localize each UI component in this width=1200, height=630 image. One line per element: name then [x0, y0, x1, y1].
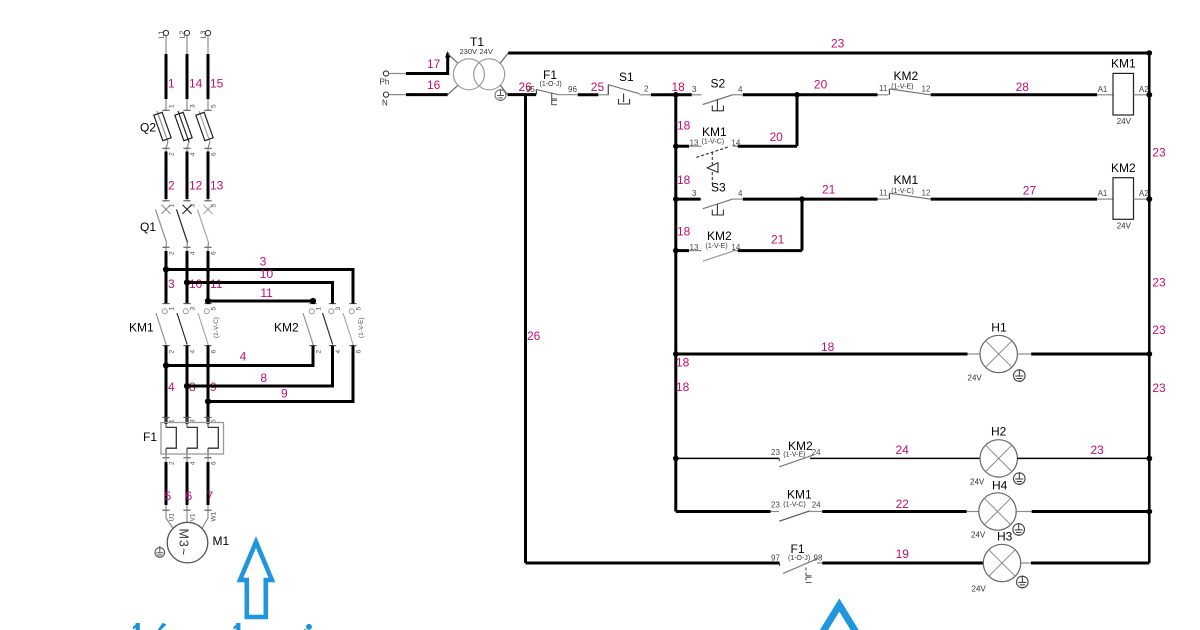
- svg-text:21: 21: [822, 183, 836, 197]
- wire 23 (H1 to rail): [1017, 351, 1152, 357]
- svg-text:H4: H4: [992, 478, 1008, 492]
- wire 21 (vertical link): [801, 199, 804, 251]
- wire motor lead V1: [186, 510, 188, 522]
- svg-text:A1: A1: [1098, 189, 1108, 198]
- contact KM1 11-12: [878, 193, 931, 199]
- svg-text:M1: M1: [213, 534, 230, 548]
- svg-text:97: 97: [771, 553, 780, 562]
- wire 18 (H1 row): [676, 353, 980, 356]
- svg-text:18: 18: [677, 119, 691, 133]
- svg-text:96: 96: [568, 85, 577, 94]
- wire 6: [183, 453, 196, 522]
- svg-text:25: 25: [591, 80, 605, 94]
- wire 18 (H4 row left): [676, 510, 771, 513]
- svg-text:18: 18: [676, 356, 690, 370]
- terminal L1: [159, 30, 169, 38]
- svg-text:V1: V1: [190, 513, 197, 521]
- wire 28: [931, 93, 1113, 96]
- wire 20 (rail1 right): [743, 92, 878, 98]
- svg-text:26: 26: [527, 329, 541, 343]
- svg-text:Ph: Ph: [380, 78, 390, 87]
- svg-text:24: 24: [812, 500, 821, 509]
- svg-text:18: 18: [821, 340, 835, 354]
- svg-text:2: 2: [168, 178, 175, 192]
- svg-text:24: 24: [812, 448, 821, 457]
- svg-text:6: 6: [211, 350, 218, 354]
- svg-text:KM1: KM1: [702, 125, 727, 139]
- svg-text:15: 15: [210, 76, 224, 90]
- wire 27: [931, 198, 1113, 201]
- wire 9 (return bus from KM2 pole3): [205, 346, 353, 405]
- svg-text:8: 8: [260, 371, 267, 385]
- wire 8 (vertical): [186, 346, 189, 424]
- contact F1 97-98: [780, 559, 823, 583]
- svg-text:27: 27: [1023, 184, 1037, 198]
- svg-text:KM2: KM2: [274, 321, 299, 335]
- svg-text:KM1: KM1: [894, 173, 919, 187]
- svg-text:A1: A1: [1098, 85, 1108, 94]
- svg-text:22: 22: [896, 497, 910, 511]
- svg-text:2: 2: [169, 152, 176, 156]
- ground symbol at T1 secondary: [495, 90, 506, 101]
- svg-text:12: 12: [189, 178, 203, 192]
- svg-text:A2: A2: [1139, 85, 1149, 94]
- svg-text:18: 18: [672, 80, 686, 94]
- svg-text:11: 11: [879, 84, 888, 93]
- svg-text:4: 4: [335, 350, 342, 354]
- svg-text:5: 5: [211, 104, 218, 108]
- wire 13: [204, 148, 217, 207]
- svg-text:4: 4: [738, 85, 743, 94]
- wire 24 (H2 row left): [676, 457, 780, 459]
- svg-text:KM2: KM2: [1111, 161, 1136, 175]
- contactor KM2 pole 1: [303, 304, 323, 354]
- svg-text:5: 5: [165, 489, 172, 503]
- pushbutton S2 (NO): [692, 95, 743, 111]
- wire 12: [183, 148, 196, 207]
- contactor KM1 pole 3: [198, 304, 218, 354]
- lamp H4: [979, 493, 1016, 530]
- svg-text:4: 4: [190, 251, 197, 255]
- breaker Q1 pole 3: [198, 205, 218, 255]
- svg-text:3: 3: [168, 277, 175, 291]
- svg-text:23: 23: [1091, 443, 1105, 457]
- terminal L3: [201, 30, 211, 38]
- svg-text:(1-V-C): (1-V-C): [702, 139, 725, 146]
- svg-text:24V: 24V: [971, 530, 986, 539]
- ground symbol (H3): [1017, 576, 1029, 588]
- svg-text:20: 20: [770, 130, 784, 144]
- wire 15 (phase L3 drop): [204, 36, 217, 111]
- lamp H2: [980, 440, 1017, 477]
- wire 22: [822, 510, 979, 513]
- svg-text:23: 23: [831, 37, 845, 51]
- svg-text:(1-V-C): (1-V-C): [213, 317, 220, 338]
- svg-text:23: 23: [771, 448, 780, 457]
- wire 14 (phase L2 drop): [183, 36, 196, 111]
- fuse-switch Q2 pole 2: [175, 111, 197, 156]
- wire motor lead U1: [166, 510, 174, 529]
- wire 4 (return bus from KM2 pole1): [163, 346, 313, 369]
- wire 21 (row3 right): [743, 196, 878, 202]
- wire 2: [162, 148, 175, 207]
- svg-text:24V: 24V: [972, 584, 987, 593]
- contact KM2 23-24: [779, 455, 814, 467]
- svg-text:4: 4: [168, 380, 175, 394]
- svg-text:18: 18: [676, 380, 690, 394]
- svg-text:12: 12: [922, 189, 931, 198]
- wire 24 (H2 to lamp): [810, 457, 980, 459]
- wire 18 (rail1): [651, 92, 692, 98]
- svg-text:(1-V-E): (1-V-E): [891, 84, 913, 91]
- wire 7: [204, 453, 217, 522]
- contact F1 95-96: [536, 89, 577, 105]
- svg-text:13: 13: [690, 243, 699, 252]
- motor M1: [167, 522, 208, 563]
- svg-text:2: 2: [169, 350, 176, 354]
- contact KM2 11-12: [878, 89, 931, 95]
- svg-text:3: 3: [692, 85, 697, 94]
- svg-text:2: 2: [169, 251, 176, 255]
- wire motor lead W1: [202, 510, 209, 529]
- svg-text:23: 23: [771, 500, 780, 509]
- svg-text:KM1: KM1: [1111, 57, 1136, 71]
- wire 5: [162, 453, 175, 522]
- svg-text:12: 12: [922, 84, 931, 93]
- fuse-switch Q2 pole 3: [196, 111, 218, 156]
- wire 23 (H3 to rail): [1021, 562, 1150, 564]
- svg-text:24V: 24V: [968, 374, 983, 383]
- contact KM1 13-14: [676, 146, 797, 184]
- svg-text:6: 6: [211, 251, 218, 255]
- wire 8 (return bus from KM2 pole2): [184, 346, 333, 390]
- svg-text:(1-V-C): (1-V-C): [891, 188, 914, 195]
- svg-text:18: 18: [677, 173, 691, 187]
- svg-text:5: 5: [211, 307, 218, 311]
- contact KM1 23-24: [771, 511, 823, 521]
- svg-text:W1: W1: [211, 511, 218, 521]
- svg-text:13: 13: [210, 178, 224, 192]
- svg-text:1: 1: [169, 104, 176, 108]
- blue caption: schema de puissance (clipped ascender tops): [133, 623, 312, 630]
- svg-text:S1: S1: [619, 70, 634, 84]
- svg-text:13: 13: [690, 139, 699, 148]
- svg-text:H1: H1: [991, 320, 1007, 334]
- svg-text:Q2: Q2: [140, 121, 156, 135]
- svg-text:H3: H3: [997, 530, 1013, 544]
- svg-text:4: 4: [190, 350, 197, 354]
- contactor KM2 pole 2: [323, 304, 343, 354]
- svg-text:2: 2: [644, 85, 649, 94]
- svg-text:95: 95: [526, 85, 535, 94]
- contactor KM1 pole 1: [156, 304, 176, 354]
- ground symbol at motor: [155, 546, 165, 557]
- thermal relay F1 heater pole 2: [183, 417, 197, 465]
- svg-text:19: 19: [896, 547, 910, 561]
- svg-text:23: 23: [1152, 323, 1166, 337]
- svg-text:KM2: KM2: [707, 229, 732, 243]
- svg-text:KM2: KM2: [894, 69, 919, 83]
- svg-text:3: 3: [692, 189, 697, 198]
- svg-text:2: 2: [316, 350, 323, 354]
- ground symbol (H1): [1014, 369, 1026, 381]
- svg-text:16: 16: [427, 78, 441, 92]
- svg-text:KM1: KM1: [129, 321, 154, 335]
- svg-text:2: 2: [169, 461, 176, 465]
- terminal N: [382, 92, 389, 108]
- svg-text:230V: 230V: [460, 47, 478, 56]
- svg-text:3: 3: [190, 307, 197, 311]
- svg-text:Q1: Q1: [140, 220, 156, 234]
- lamp H1: [980, 335, 1017, 372]
- wire 17: [389, 51, 451, 75]
- wire 26 (from T1 secondary): [508, 95, 780, 563]
- svg-text:14: 14: [731, 139, 740, 148]
- thermal relay F1 heater pole 1: [162, 417, 176, 465]
- breaker Q1 pole 1: [156, 205, 176, 255]
- svg-text:(1-O-J): (1-O-J): [788, 555, 810, 562]
- contactor KM2 pole 3: [343, 304, 363, 354]
- svg-text:14: 14: [189, 76, 203, 90]
- ground symbol (H2): [1014, 472, 1026, 484]
- wire 18 (left branch vertical): [673, 95, 679, 512]
- svg-text:6: 6: [211, 152, 218, 156]
- svg-text:24V: 24V: [1117, 221, 1132, 230]
- contact KM2 13-14: [676, 251, 802, 262]
- svg-text:6: 6: [186, 489, 193, 503]
- svg-text:4: 4: [190, 152, 197, 156]
- svg-text:3: 3: [190, 104, 197, 108]
- wire 4 (vertical): [165, 346, 168, 424]
- wire 11 (vertical): [207, 247, 209, 303]
- pushbutton S1 (NC): [608, 85, 651, 105]
- svg-text:KM1: KM1: [787, 487, 812, 501]
- wire 3 (bus to KM2 pole3): [163, 266, 353, 303]
- svg-text:18: 18: [677, 225, 691, 239]
- svg-text:1: 1: [316, 307, 323, 311]
- svg-text:(1-V-E): (1-V-E): [783, 452, 805, 459]
- svg-text:11: 11: [260, 286, 273, 300]
- svg-text:23: 23: [1152, 146, 1166, 160]
- wire 3 (vertical): [165, 247, 167, 303]
- wire 16: [389, 94, 448, 96]
- svg-text:23: 23: [1152, 276, 1166, 290]
- svg-text:24: 24: [896, 443, 910, 457]
- svg-text:6: 6: [211, 461, 218, 465]
- thermal relay F1 box: [161, 423, 224, 455]
- svg-text:21: 21: [771, 233, 785, 247]
- coil KM1: [1113, 73, 1152, 115]
- terminal L2: [180, 30, 190, 38]
- pushbutton S3 (NO): [676, 199, 743, 215]
- svg-text:(1-V-E): (1-V-E): [358, 317, 365, 338]
- svg-text:23: 23: [1152, 381, 1166, 395]
- wire 1 (phase L1 drop): [162, 36, 175, 111]
- svg-text:11: 11: [879, 188, 888, 197]
- wire 23 (right rail): [1148, 53, 1151, 563]
- wire 25: [578, 93, 609, 96]
- svg-text:24V: 24V: [970, 477, 985, 486]
- svg-text:10: 10: [260, 267, 274, 281]
- terminal Ph: [380, 71, 390, 87]
- svg-text:U1: U1: [169, 513, 176, 522]
- svg-text:28: 28: [1016, 80, 1030, 94]
- svg-text:5: 5: [356, 307, 363, 311]
- svg-text:(1-O-J): (1-O-J): [540, 81, 562, 88]
- svg-text:7: 7: [207, 489, 214, 503]
- svg-text:9: 9: [281, 387, 288, 401]
- breaker Q1 pole 2: [177, 205, 197, 255]
- wire 10 (bus to KM2 pole2): [184, 279, 333, 303]
- wire 23 (H4 to rail): [1016, 509, 1152, 515]
- wire 11 (bus to KM2 pole1): [205, 298, 316, 304]
- wire 23 (H2 to rail): [1017, 456, 1152, 462]
- svg-text:(1-V-E): (1-V-E): [706, 243, 728, 250]
- svg-text:24V: 24V: [1117, 117, 1132, 126]
- svg-text:4: 4: [240, 350, 247, 364]
- wire 10 (vertical): [186, 247, 188, 303]
- svg-text:14: 14: [731, 243, 740, 252]
- svg-text:S2: S2: [711, 77, 726, 91]
- svg-text:1: 1: [168, 76, 175, 90]
- svg-text:H2: H2: [991, 425, 1007, 439]
- svg-text:N: N: [382, 99, 388, 108]
- svg-text:(1-V-C): (1-V-C): [783, 502, 806, 509]
- thermal relay F1 heater pole 3: [204, 417, 218, 465]
- svg-text:20: 20: [814, 78, 828, 92]
- svg-text:17: 17: [427, 57, 441, 71]
- svg-text:S3: S3: [711, 181, 726, 195]
- svg-text:A2: A2: [1139, 189, 1149, 198]
- svg-text:98: 98: [814, 553, 823, 562]
- lamp H3: [983, 544, 1020, 581]
- wire 23 (top rail): [508, 50, 1152, 56]
- svg-text:4: 4: [190, 461, 197, 465]
- svg-text:1: 1: [169, 307, 176, 311]
- wire 19: [822, 562, 983, 565]
- blue arrow (points to power circuit): [240, 542, 272, 617]
- wire 9 (vertical): [207, 346, 210, 424]
- contactor KM1 pole 2: [177, 304, 197, 354]
- coil KM2: [1113, 178, 1152, 220]
- transformer T1: [448, 53, 509, 95]
- blue arrow (points to control circuit): [815, 605, 864, 630]
- svg-text:6: 6: [356, 350, 363, 354]
- fuse-switch Q2 pole 1: [154, 111, 176, 156]
- svg-text:F1: F1: [143, 430, 157, 444]
- svg-text:24V: 24V: [480, 47, 493, 56]
- svg-text:M3~: M3~: [177, 529, 191, 557]
- ground symbol (H4): [1013, 523, 1025, 535]
- svg-text:4: 4: [738, 189, 743, 198]
- wire 20 (vertical link): [796, 95, 799, 146]
- svg-text:3: 3: [335, 307, 342, 311]
